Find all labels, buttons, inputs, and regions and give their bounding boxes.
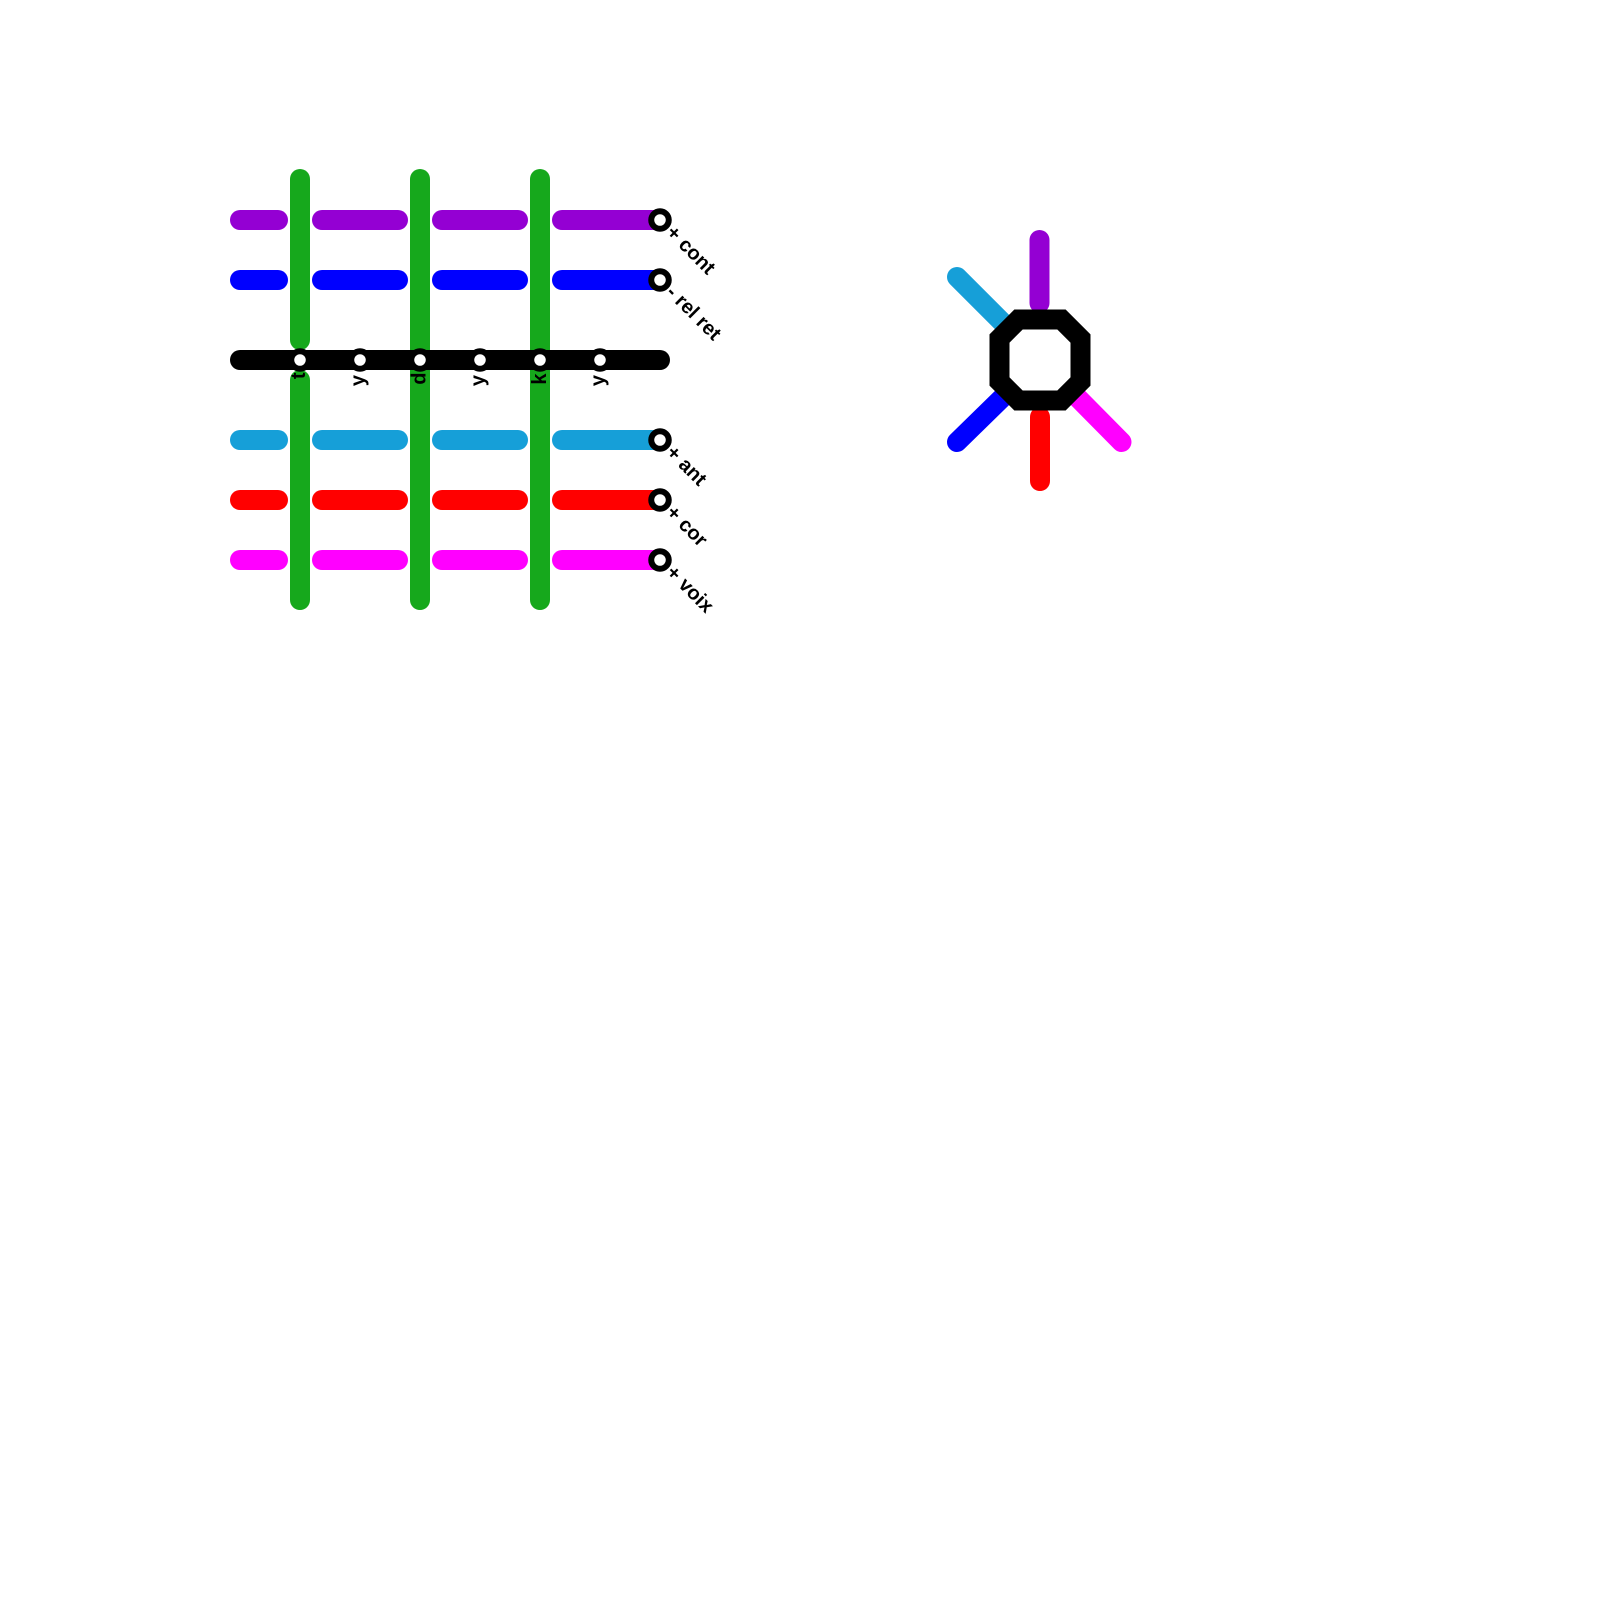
node terminal + cont (660,220) bbox=[651, 211, 669, 229]
wire magenta line (+ voix), y=560, 4 segments bbox=[240, 550, 660, 570]
svg-text:d: d bbox=[409, 373, 431, 385]
wire green line g1 (vertical, x=300, lower segment) bbox=[290, 380, 310, 600]
svg-text:y: y bbox=[348, 374, 370, 386]
node station y (360,360) bbox=[351, 351, 369, 369]
node station t (300,360) bbox=[291, 351, 309, 369]
wire red spoke (octagon bottom) bbox=[1030, 417, 1050, 481]
wire green line g3 (vertical, x=540) bbox=[530, 179, 550, 600]
node terminal + voix (660,560) bbox=[651, 551, 669, 569]
node station d (420,360) bbox=[411, 351, 429, 369]
wire black bus line, y=360, continuous bbox=[240, 350, 660, 370]
wire red line (+ cor), y=500, 4 segments bbox=[240, 490, 660, 510]
node octagon hub bbox=[1000, 320, 1081, 401]
wire green line g1 (vertical, x=300, upper segment) bbox=[290, 179, 310, 340]
wire blue spoke (octagon lower-left) bbox=[957, 398, 1002, 442]
svg-text:y: y bbox=[468, 374, 490, 386]
node station y3 (600,360) bbox=[591, 351, 609, 369]
node terminal - rel ret (660,280) bbox=[651, 271, 669, 289]
wire purple line (+ cont), y=220, 4 segments bbox=[240, 210, 660, 230]
wire magenta spoke (octagon lower-right) bbox=[1078, 398, 1122, 442]
wire cyan line (+ ant), y=440, 4 segments bbox=[240, 430, 660, 450]
wire purple spoke (octagon top) bbox=[1030, 240, 1050, 303]
node station k (540,360) bbox=[531, 351, 549, 369]
node station y2 (480,360) bbox=[471, 351, 489, 369]
svg-text:k: k bbox=[529, 373, 551, 385]
node terminal + cor (660,500) bbox=[651, 491, 669, 509]
wire cyan spoke (octagon upper-left) bbox=[957, 277, 1002, 322]
node terminal + ant (660,440) bbox=[651, 431, 669, 449]
wire green line g2 (vertical, x=420) bbox=[410, 179, 430, 600]
svg-text:y: y bbox=[588, 374, 610, 386]
svg-text:t: t bbox=[288, 372, 310, 379]
wire blue line (- rel ret), y=280, 4 segments bbox=[240, 270, 660, 290]
